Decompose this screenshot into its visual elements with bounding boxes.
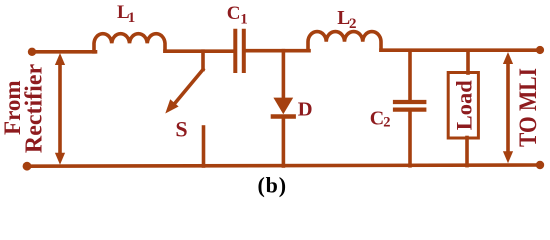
svg-text:S: S	[175, 117, 187, 142]
svg-text:2: 2	[349, 16, 357, 32]
svg-text:(b): (b)	[258, 173, 287, 198]
diode D anode wire	[282, 51, 286, 99]
right double arrow down head	[503, 151, 513, 163]
capacitor C2 bottom wire	[408, 111, 412, 166]
inductor L2	[308, 32, 381, 51]
svg-text:C: C	[227, 3, 241, 24]
diode D triangle	[273, 98, 293, 115]
svg-text:Rectifier: Rectifier	[21, 64, 47, 154]
right double arrow shaft (TO MLI span)	[506, 62, 510, 154]
left double arrow shaft (From Rectifier span)	[58, 63, 62, 154]
switch S arrowhead	[165, 99, 178, 113]
diode D cathode wire	[282, 117, 286, 166]
inductor L1	[94, 34, 165, 52]
switch S top contact drop	[201, 51, 205, 69]
node: top-right terminal dot	[536, 46, 544, 54]
svg-text:D: D	[298, 99, 313, 121]
switch S bottom contact stub	[202, 127, 206, 166]
diode D cathode bar	[273, 114, 294, 118]
svg-text:1: 1	[240, 12, 248, 28]
wire top-left from dot to L1	[32, 50, 96, 54]
node: bottom-left terminal dot	[23, 162, 32, 171]
load top stub	[466, 50, 470, 73]
switch S blade (arrow shaft)	[176, 70, 204, 103]
capacitor C2 top wire	[408, 50, 412, 100]
svg-text:TO MLI: TO MLI	[515, 68, 543, 147]
svg-text:1: 1	[128, 10, 136, 26]
capacitor C1 plates	[235, 31, 244, 71]
svg-text:C: C	[370, 107, 384, 129]
load box	[448, 73, 478, 139]
wire C1 right plate to L2	[246, 49, 309, 53]
svg-text:Load: Load	[451, 80, 476, 131]
wire L1 to C1 left plate	[165, 49, 234, 53]
left double arrow up head	[55, 53, 65, 65]
svg-text:2: 2	[383, 115, 390, 131]
wire bottom rail	[27, 165, 540, 166]
load bottom stub	[465, 138, 469, 166]
right double arrow up head	[503, 52, 513, 64]
left double arrow down head	[55, 153, 65, 165]
wire L2 to top-right terminal	[381, 48, 540, 52]
node: top-left terminal dot	[28, 48, 36, 56]
capacitor C2 plates	[395, 102, 424, 110]
node: bottom-right terminal dot	[536, 161, 544, 169]
